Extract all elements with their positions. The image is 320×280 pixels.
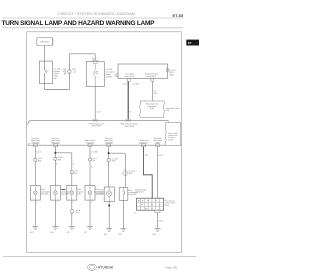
svg-text:R02: R02 [112,161,115,163]
svg-text:3.0R (E33): 3.0R (E33) [125,126,135,128]
svg-text:lamp (RH): lamp (RH) [128,194,136,196]
svg-text:1.5: 1.5 [134,212,136,214]
svg-text:(CN3): (CN3) [168,139,173,141]
svg-text:1.25: 1.25 [73,71,77,73]
svg-text:BATTERY: BATTERY [40,41,49,44]
svg-text:ET-65: ET-65 [173,13,184,18]
svg-text:[C20]: [C20] [165,205,170,207]
svg-text:2: 2 [73,201,74,203]
svg-text:E07: E07 [54,78,57,80]
svg-text:6: 6 [115,75,116,77]
svg-text:Main 3.0R: Main 3.0R [92,126,101,128]
svg-text:2: 2 [91,201,92,203]
svg-text:control unit: control unit [135,191,144,194]
svg-text:IG2: IG2 [46,70,49,72]
svg-text:[C16]: [C16] [150,108,155,110]
svg-text:R04: R04 [129,173,132,175]
svg-text:TURN SIGNAL LAMP AND HAZARD WA: TURN SIGNAL LAMP AND HAZARD WARNING LAMP [2,20,156,27]
svg-text:(LH): (LH) [77,194,81,196]
svg-text:2: 2 [37,201,38,203]
svg-text:E09: E09 [58,159,61,161]
svg-text:1: 1 [115,190,116,192]
svg-text:E12: E12 [76,212,79,214]
svg-text:lamp (RH): lamp (RH) [61,194,69,196]
svg-text:switch [10C]: switch [10C] [125,75,135,78]
svg-text:Page 195: Page 195 [165,266,177,270]
svg-text:0.5 G: 0.5 G [37,151,42,153]
svg-text:lamp (LH): lamp (LH) [96,194,104,196]
svg-text:(LH): (LH) [166,110,170,112]
svg-text:E10: E10 [74,173,77,175]
svg-text:(E33): (E33) [169,74,174,76]
svg-text:ET: ET [188,41,192,45]
svg-text:0.5 G: 0.5 G [97,111,102,113]
svg-text:E08: E08 [38,160,41,162]
svg-text:lamp (LH): lamp (LH) [41,194,49,196]
svg-text:switch [14C]: switch [14C] [146,75,156,78]
svg-text:E30: E30 [92,58,95,60]
svg-text:0.5 G/B: 0.5 G/B [133,84,140,86]
svg-text:2: 2 [115,193,116,195]
svg-text:0.5 G/B: 0.5 G/B [91,151,98,153]
svg-text:HYUNDAI: HYUNDAI [98,266,114,270]
svg-text:CIRCUIT / SYSTEM SCHEMATIC DIA: CIRCUIT / SYSTEM SCHEMATIC DIAGRAM [58,12,135,16]
svg-text:18-1: 18-1 [145,155,149,157]
svg-text:2: 2 [57,201,58,203]
svg-text:unit E31: unit E31 [105,75,112,78]
svg-text:E11: E11 [92,160,95,162]
svg-text:0.5 G: 0.5 G [123,84,128,86]
